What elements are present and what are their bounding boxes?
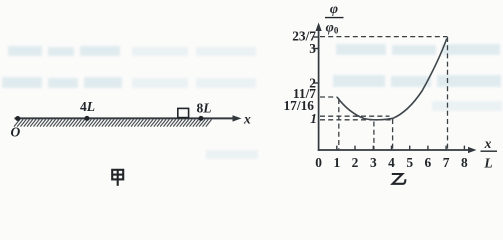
- svg-text:4L: 4L: [80, 99, 95, 114]
- svg-text:3: 3: [309, 41, 316, 56]
- svg-text:7: 7: [443, 155, 450, 170]
- svg-text:5: 5: [406, 155, 413, 170]
- svg-text:2: 2: [352, 155, 359, 170]
- svg-text:8L: 8L: [197, 101, 212, 116]
- svg-text:6: 6: [425, 155, 432, 170]
- svg-text:O: O: [11, 125, 21, 140]
- svg-text:x: x: [484, 136, 492, 151]
- svg-text:x: x: [243, 112, 251, 127]
- svg-text:0: 0: [315, 155, 322, 170]
- svg-text:8: 8: [461, 155, 468, 170]
- svg-text:L: L: [483, 156, 492, 171]
- svg-text:1: 1: [333, 155, 340, 170]
- svg-text:1: 1: [310, 111, 317, 126]
- svg-text:φ: φ: [330, 2, 338, 17]
- svg-text:3: 3: [370, 155, 377, 170]
- svg-text:4: 4: [388, 155, 395, 170]
